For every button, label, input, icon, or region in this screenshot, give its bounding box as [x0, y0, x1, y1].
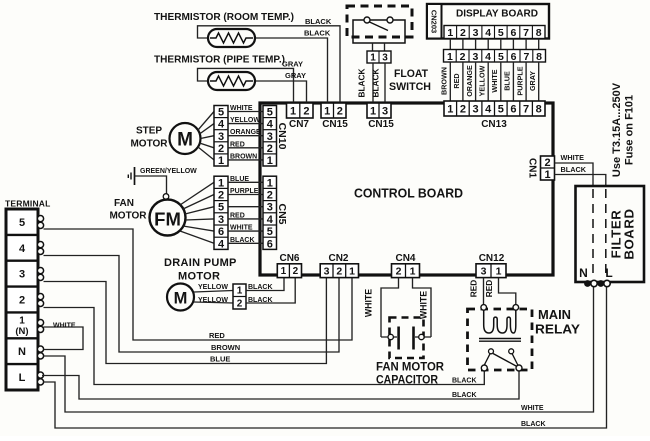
svg-text:GRAY: GRAY: [285, 71, 306, 80]
wire black terminal L to main relay switch right: [42, 370, 519, 399]
svg-text:7: 7: [523, 104, 529, 116]
svg-text:2: 2: [336, 266, 342, 278]
svg-text:THERMISTOR (ROOM TEMP.): THERMISTOR (ROOM TEMP.): [154, 12, 294, 23]
svg-text:6: 6: [218, 226, 224, 238]
svg-text:1: 1: [544, 169, 550, 181]
svg-text:BLACK: BLACK: [248, 297, 273, 304]
svg-text:CN4: CN4: [395, 253, 415, 264]
svg-text:PURPLE: PURPLE: [515, 66, 524, 95]
relay coil K1: [484, 310, 516, 333]
svg-text:CONTROL BOARD: CONTROL BOARD: [354, 187, 463, 201]
svg-text:TERMINAL: TERMINAL: [5, 199, 51, 209]
svg-text:2: 2: [218, 143, 224, 155]
svg-text:FM: FM: [154, 209, 181, 230]
svg-text:YELLOW: YELLOW: [198, 284, 228, 291]
wire yellow harness pin 4 to CN13: [487, 62, 489, 103]
svg-text:5: 5: [267, 107, 273, 119]
wire fan motor lead 1: [180, 182, 214, 205]
svg-text:3: 3: [218, 214, 224, 226]
svg-text:BLUE: BLUE: [503, 71, 512, 91]
svg-text:BLACK: BLACK: [561, 165, 587, 174]
svg-text:ORANGE: ORANGE: [465, 65, 474, 97]
svg-text:1: 1: [19, 316, 25, 327]
wire white CN1 pin2 to filter board: [555, 163, 594, 186]
wire fan motor lead 2: [183, 195, 214, 210]
svg-text:1: 1: [267, 155, 273, 167]
svg-text:1: 1: [447, 51, 453, 63]
connector CN7: [287, 103, 314, 118]
display harness connector 1-8: [444, 50, 546, 63]
wire black CN1 pin1 to filter board: [555, 175, 606, 187]
float switch dashed enclosure: [347, 6, 412, 37]
svg-text:GREEN/YELLOW: GREEN/YELLOW: [140, 168, 197, 175]
svg-text:2: 2: [218, 190, 224, 202]
wire float switch leg 3: [384, 43, 386, 51]
svg-text:3: 3: [481, 266, 487, 278]
svg-text:2: 2: [460, 27, 466, 39]
svg-text:1: 1: [349, 266, 355, 278]
svg-text:STEP: STEP: [136, 126, 162, 137]
wire step motor lead 3: [201, 136, 215, 139]
connector CN4: [392, 264, 420, 278]
svg-text:WHITE: WHITE: [419, 291, 429, 319]
svg-text:3: 3: [382, 53, 388, 64]
svg-text:CN15: CN15: [368, 119, 394, 130]
terminal block: [6, 209, 38, 390]
svg-text:1: 1: [447, 104, 453, 116]
wire display board pin 8 to harness: [538, 39, 540, 50]
svg-text:WHITE: WHITE: [364, 289, 374, 317]
svg-text:3: 3: [382, 106, 388, 118]
svg-text:1: 1: [324, 106, 330, 118]
svg-text:L: L: [19, 372, 26, 384]
connector CN12: [476, 264, 506, 278]
svg-text:CN5: CN5: [276, 203, 288, 224]
terminal N spade lugs: [37, 346, 43, 359]
wire blue harness pin 6 to CN13: [512, 62, 514, 103]
wire black drain pump 2 to CN6 pin2: [246, 278, 295, 303]
svg-text:1: 1: [290, 106, 296, 118]
svg-text:BLACK: BLACK: [248, 284, 273, 291]
filter board internal dashed line N: [592, 189, 594, 279]
wire fan motor row 2 to CN5 pin 2: [228, 194, 263, 196]
wire display board pin 7 to harness: [525, 39, 527, 50]
svg-text:YELLOW: YELLOW: [477, 65, 486, 96]
svg-text:4: 4: [485, 104, 492, 116]
display board pin row 1-8: [444, 26, 545, 40]
wire orange harness pin 3 to CN13: [475, 62, 477, 103]
svg-text:4: 4: [218, 238, 225, 250]
wire fan motor row 4 to CN5 pin 4: [228, 218, 263, 220]
wire float switch black to CN15 pin3: [384, 63, 386, 103]
svg-text:WHITE: WHITE: [490, 69, 499, 92]
svg-text:1: 1: [370, 53, 376, 64]
wire black drain pump 1 to CN6 pin1: [246, 278, 284, 291]
wire fan motor lead 4: [186, 219, 215, 220]
svg-text:BLACK: BLACK: [371, 68, 381, 97]
connector CN2: [320, 264, 358, 278]
svg-text:BLACK: BLACK: [304, 29, 331, 38]
terminal L spade lugs: [37, 372, 43, 385]
wire green/yellow ground to fan motor: [135, 176, 167, 194]
connector CN5: [263, 176, 277, 250]
drain pump motor M: [167, 284, 194, 311]
svg-text:5: 5: [498, 51, 504, 63]
wire step motor lead 4: [200, 124, 215, 134]
wire float switch black to CN15 pin1: [372, 63, 374, 103]
svg-text:FLOAT: FLOAT: [394, 68, 428, 80]
step motor connector column: [214, 106, 228, 167]
control board outline: [260, 103, 553, 275]
relay coil terminals: [481, 305, 487, 311]
svg-text:3: 3: [218, 131, 224, 143]
filter board outline: [576, 186, 645, 282]
wire yellow step motor to CN10 pin 4: [228, 123, 263, 125]
wire step motor lead 1: [198, 147, 214, 160]
terminal 5 spade lugs: [37, 216, 43, 229]
wire display board pin 5 to harness: [500, 39, 502, 50]
svg-text:2: 2: [460, 51, 466, 63]
svg-text:5: 5: [19, 217, 25, 229]
svg-text:3: 3: [267, 131, 273, 143]
svg-text:2: 2: [544, 157, 550, 169]
svg-text:MOTOR: MOTOR: [178, 271, 220, 283]
fan motor FM: [150, 200, 186, 236]
svg-text:L: L: [605, 266, 612, 280]
connector CN10: [263, 106, 277, 167]
svg-text:BLACK: BLACK: [357, 68, 367, 97]
svg-text:WHITE: WHITE: [53, 323, 76, 330]
svg-text:CN2: CN2: [328, 253, 348, 264]
svg-text:CN10: CN10: [276, 123, 288, 150]
svg-text:CAPACITOR: CAPACITOR: [376, 375, 439, 387]
wire fan motor lead 3: [185, 207, 214, 214]
wire step motor lead 5: [198, 112, 214, 131]
connector CN15 (thermistor): [321, 103, 346, 118]
svg-text:DRAIN PUMP: DRAIN PUMP: [164, 257, 237, 269]
svg-text:2: 2: [19, 295, 25, 307]
fuse note text: [611, 82, 636, 177]
svg-text:4: 4: [267, 119, 274, 131]
svg-text:2: 2: [237, 298, 243, 309]
svg-text:1: 1: [496, 266, 502, 278]
svg-text:3: 3: [473, 104, 479, 116]
wire float switch leg 1: [372, 43, 374, 51]
svg-text:(N): (N): [15, 326, 28, 337]
svg-text:8: 8: [536, 51, 542, 63]
svg-text:RED: RED: [209, 331, 225, 340]
svg-text:1: 1: [218, 177, 224, 189]
svg-text:N: N: [579, 266, 588, 280]
wire black terminal 2 to main relay switch left: [44, 308, 485, 385]
wire pipe thermistor lead 1 gray to CN7 pin1: [198, 68, 294, 103]
terminal 2 spade lugs: [37, 294, 43, 307]
wire black terminal L to filter board L: [44, 287, 607, 428]
wire white harness pin 5 to CN13: [500, 62, 502, 103]
svg-text:BROWN: BROWN: [440, 67, 449, 95]
connector CN15 (float switch): [367, 103, 391, 118]
filter board label: [609, 208, 637, 259]
svg-text:BLACK: BLACK: [452, 392, 477, 399]
wire brown harness pin 1 to CN13: [449, 62, 451, 103]
svg-text:WHITE: WHITE: [521, 405, 544, 412]
svg-text:6: 6: [267, 238, 273, 250]
svg-text:1: 1: [237, 286, 243, 297]
wire gray harness pin 8 to CN13: [538, 62, 540, 103]
svg-text:5: 5: [267, 226, 273, 238]
ground symbol (chassis earth): [128, 167, 134, 185]
float switch connector 1-3: [367, 51, 391, 64]
wire white CN4 pin2 to capacitor left: [381, 278, 399, 337]
svg-text:1: 1: [447, 27, 453, 39]
svg-text:2: 2: [303, 106, 309, 118]
wire display board pin 3 to harness: [475, 39, 477, 50]
wire fan motor lead 5: [183, 226, 214, 231]
main relay dashed enclosure: [468, 309, 533, 370]
display board CN203 connector box: [427, 4, 442, 39]
svg-text:RED: RED: [469, 280, 479, 298]
fan motor capacitor dashed enclosure: [390, 318, 424, 359]
svg-text:M: M: [174, 290, 188, 308]
terminal 1(N) spade lugs: [37, 320, 43, 333]
relay switch terminals: [481, 365, 487, 371]
svg-text:5: 5: [218, 107, 224, 119]
svg-text:BROWN: BROWN: [230, 153, 257, 160]
svg-text:3: 3: [473, 27, 479, 39]
wire white step motor to CN10 pin 5: [228, 111, 263, 113]
svg-text:BLACK: BLACK: [452, 378, 477, 385]
svg-text:GRAY: GRAY: [528, 71, 537, 91]
svg-text:BLACK: BLACK: [521, 421, 546, 428]
svg-text:4: 4: [485, 51, 491, 63]
filter board N terminal dots: [584, 280, 597, 287]
fan motor ground terminal: [163, 194, 169, 200]
svg-text:4: 4: [19, 243, 26, 255]
wire brown terminal 4 to CN2 pin2: [44, 256, 340, 353]
thermistor RT1 (room temp.): [208, 29, 255, 47]
svg-text:7: 7: [523, 27, 529, 39]
wire display board pin 4 to harness: [487, 39, 489, 50]
svg-text:4: 4: [267, 214, 274, 226]
display board outline: [427, 4, 549, 39]
svg-text:CN15: CN15: [322, 119, 348, 130]
wire red CN12 pin1 to relay coil: [499, 278, 516, 305]
wire fan motor lead 6: [180, 231, 214, 243]
svg-text:WHITE: WHITE: [230, 105, 253, 112]
wire blue terminal 3 to CN2 pin3: [44, 278, 327, 364]
wire fan motor row 3 to CN5 pin 3: [228, 206, 263, 208]
terminal 4 spade lugs: [37, 242, 43, 255]
svg-text:1: 1: [410, 266, 416, 278]
wire brown step motor to CN10 pin 1: [228, 159, 263, 161]
svg-text:RED: RED: [452, 73, 461, 88]
svg-text:CN203: CN203: [430, 10, 439, 33]
svg-text:ORANGE: ORANGE: [230, 129, 261, 136]
svg-text:1: 1: [370, 106, 376, 118]
wire yellow drain pump lead 1: [194, 291, 233, 293]
wire display board pin 2 to harness: [462, 39, 464, 50]
svg-text:4: 4: [218, 119, 225, 131]
svg-text:FAN MOTOR: FAN MOTOR: [376, 362, 445, 374]
capacitor C1: [381, 327, 431, 350]
svg-text:Use T3.15A...250V: Use T3.15A...250V: [611, 82, 623, 177]
svg-text:2: 2: [460, 104, 466, 116]
svg-text:3: 3: [324, 266, 330, 278]
wire red terminal 5 to CN2 pin1: [44, 229, 353, 340]
svg-text:2: 2: [293, 266, 299, 277]
svg-text:DISPLAY BOARD: DISPLAY BOARD: [456, 9, 538, 20]
wire red step motor to CN10 pin 2: [228, 147, 263, 149]
svg-text:YELLOW: YELLOW: [230, 117, 260, 124]
svg-text:SWITCH: SWITCH: [389, 81, 431, 93]
svg-text:BLACK: BLACK: [305, 17, 332, 26]
svg-text:CN12: CN12: [479, 253, 505, 264]
svg-text:1: 1: [281, 266, 287, 277]
svg-text:6: 6: [511, 51, 517, 63]
wire white CN4 pin1 to capacitor right: [413, 278, 432, 337]
thermistor RT2 (pipe temp.): [208, 72, 255, 90]
terminal 3 spade lugs: [37, 268, 43, 281]
wire display board pin 6 to harness: [512, 39, 514, 50]
svg-text:3: 3: [19, 269, 25, 281]
step motor M: [170, 123, 201, 154]
svg-text:5: 5: [218, 202, 224, 214]
connector CN13: [444, 101, 545, 116]
svg-text:BOARD: BOARD: [622, 208, 637, 259]
svg-text:FAN: FAN: [114, 198, 134, 209]
wire pipe thermistor lead 2 gray to CN7 pin2: [255, 81, 307, 103]
relay core (double line): [479, 338, 521, 340]
svg-text:YELLOW: YELLOW: [198, 297, 228, 304]
svg-text:4: 4: [485, 27, 491, 39]
wire fan motor row 6 to CN5 pin 6: [228, 242, 263, 244]
svg-text:2: 2: [267, 143, 273, 155]
wire fan motor row 1 to CN5 pin 1: [228, 181, 263, 183]
svg-text:WHITE: WHITE: [561, 153, 585, 162]
svg-text:3: 3: [472, 51, 478, 63]
svg-text:CN7: CN7: [289, 119, 309, 130]
svg-text:5: 5: [498, 27, 504, 39]
svg-text:8: 8: [536, 104, 542, 116]
svg-text:7: 7: [523, 51, 529, 63]
svg-text:BROWN: BROWN: [211, 343, 240, 352]
svg-text:RED: RED: [230, 212, 245, 219]
wire room thermistor lead 1 black to CN15 pin2: [198, 26, 341, 103]
svg-text:MOTOR: MOTOR: [109, 211, 147, 222]
wire white terminal N to filter board N: [44, 287, 594, 412]
fan motor connector column: [214, 176, 228, 250]
relay switch contacts: [484, 349, 518, 367]
svg-text:1: 1: [218, 155, 224, 167]
svg-text:2: 2: [267, 190, 273, 202]
drain pump connector column: [233, 284, 246, 309]
svg-text:BLACK: BLACK: [230, 237, 255, 244]
filter board L terminal dots: [597, 280, 610, 287]
svg-text:GRAY: GRAY: [282, 60, 303, 69]
svg-text:CN1: CN1: [527, 158, 538, 178]
svg-text:5: 5: [498, 104, 504, 116]
svg-text:2: 2: [337, 106, 343, 118]
wire white jumper terminal 1(N) to N: [44, 327, 84, 350]
svg-text:RED: RED: [230, 141, 245, 148]
svg-text:6: 6: [510, 104, 516, 116]
svg-text:CN6: CN6: [279, 253, 299, 264]
svg-text:2: 2: [396, 266, 402, 278]
svg-text:1: 1: [267, 177, 273, 189]
svg-text:BLUE: BLUE: [230, 176, 249, 183]
svg-text:RED: RED: [484, 280, 494, 298]
svg-text:RELAY: RELAY: [535, 323, 581, 337]
svg-text:M: M: [177, 130, 193, 151]
wire yellow drain pump lead 2: [194, 302, 233, 303]
filter board internal dashed line L: [605, 189, 607, 279]
svg-text:PURPLE: PURPLE: [230, 188, 259, 195]
svg-text:MOTOR: MOTOR: [130, 139, 168, 150]
wire room thermistor lead 2 black to CN15 pin1: [255, 38, 328, 103]
svg-text:3: 3: [267, 202, 273, 214]
wire red harness pin 2 to CN13: [462, 62, 464, 103]
capacitor terminal circles: [388, 334, 393, 339]
svg-text:Fuse on F101: Fuse on F101: [624, 95, 636, 165]
svg-text:N: N: [18, 346, 26, 358]
wire display board pin 1 to harness: [449, 39, 451, 50]
svg-text:BLUE: BLUE: [210, 355, 230, 364]
svg-text:MAIN: MAIN: [538, 308, 571, 322]
svg-text:WHITE: WHITE: [230, 225, 253, 232]
connector CN6: [277, 264, 301, 278]
wire fan motor row 5 to CN5 pin 5: [228, 230, 263, 232]
svg-text:THERMISTOR (PIPE TEMP.): THERMISTOR (PIPE TEMP.): [154, 55, 285, 66]
svg-text:6: 6: [510, 27, 516, 39]
svg-text:8: 8: [536, 27, 542, 39]
wire step motor lead 2: [200, 143, 215, 148]
float switch S1 body: [353, 17, 405, 43]
connector CN1: [541, 156, 555, 181]
svg-text:CN13: CN13: [481, 119, 507, 130]
wire red CN12 pin3 to relay coil: [483, 278, 485, 305]
wire purple harness pin 7 to CN13: [525, 62, 527, 103]
wire orange step motor to CN10 pin 3: [228, 135, 263, 137]
